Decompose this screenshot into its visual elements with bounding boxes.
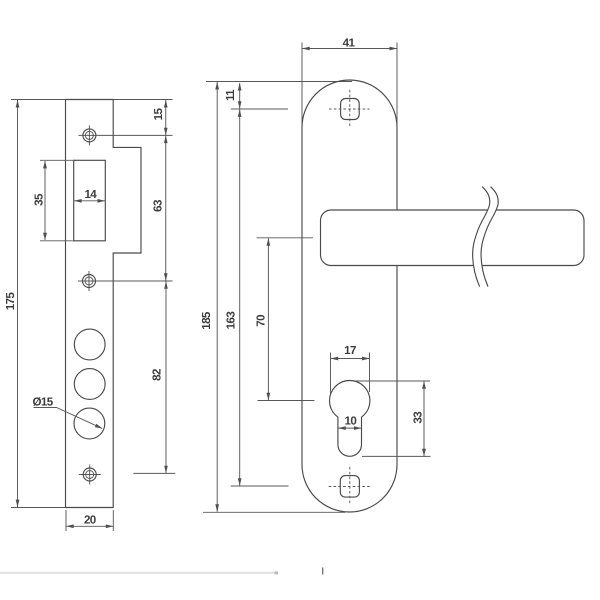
extension line: plate top edge extended <box>11 99 173 101</box>
dimension 163 line <box>239 109 241 485</box>
svg-text:17: 17 <box>344 344 356 357</box>
dimension 33 line <box>423 381 425 456</box>
dimension 14 line <box>74 200 105 202</box>
dimension 15 line <box>165 100 167 135</box>
break gap (white) <box>473 187 499 287</box>
svg-text:175: 175 <box>4 292 17 311</box>
svg-text:41: 41 <box>343 37 356 50</box>
escutcheon plate outline (stadium shape) <box>302 80 397 512</box>
svg-text:Ø15: Ø15 <box>32 396 53 409</box>
svg-text:15: 15 <box>152 108 165 121</box>
extension line: arch top tangent (for 185/11) <box>206 81 352 83</box>
extension line: handle centerline (70) <box>257 237 313 239</box>
hole circle middle (d15) <box>74 369 105 400</box>
svg-text:82: 82 <box>151 369 164 381</box>
hole circle bottom (d15) <box>74 408 105 439</box>
page artifact: light divider line bottom left <box>0 572 277 574</box>
dimension 35 extension lines <box>40 159 74 161</box>
dimension 20 extension lines <box>65 510 67 531</box>
screw hole bottom <box>79 474 101 476</box>
label D15 leader <box>34 408 103 429</box>
dimension 63 line <box>165 136 167 281</box>
dimension 35 line <box>44 161 46 240</box>
latch cutout rectangle <box>74 160 106 241</box>
svg-text:10: 10 <box>345 415 357 428</box>
bottom square hole centerlines <box>329 486 370 488</box>
dimension 70 line <box>267 238 269 400</box>
top square hole <box>341 99 360 120</box>
extension line: bottom square hole center (163) <box>231 485 289 487</box>
dimension 41 line <box>302 48 397 50</box>
dimension 82 bottom reference bar <box>133 472 175 474</box>
top square hole centerlines <box>329 108 370 110</box>
svg-text:20: 20 <box>84 513 96 526</box>
lever handle <box>321 210 585 266</box>
dimension 33 extension lines <box>356 380 430 382</box>
dimension 11 line <box>239 83 241 109</box>
euro cylinder hole: circle <box>330 381 370 421</box>
dimension 17 line <box>331 358 370 360</box>
svg-text:11: 11 <box>224 89 237 101</box>
extension line: plate bottom edge extended <box>11 507 114 509</box>
dimension 17 extension lines <box>330 353 332 395</box>
bottom square hole <box>340 476 359 498</box>
break line right <box>481 187 498 287</box>
page artifact: small tick <box>322 568 324 575</box>
extension line: top square hole center (11/163) <box>231 108 288 110</box>
dimension 82 line <box>165 281 167 473</box>
svg-text:63: 63 <box>152 199 165 212</box>
svg-text:185: 185 <box>200 311 213 330</box>
screw hole top, with leader to 15/63 dimension <box>78 134 172 136</box>
svg-text:33: 33 <box>412 411 425 424</box>
svg-text:14: 14 <box>84 188 97 201</box>
svg-text:70: 70 <box>255 315 268 327</box>
dimension 10 line <box>338 427 361 429</box>
dimension 20 line <box>66 525 113 527</box>
dimension 175 line <box>17 100 19 507</box>
extension lines: plate sides extended up (41) <box>301 43 303 129</box>
svg-text:35: 35 <box>33 193 46 206</box>
euro cylinder hole: slot <box>338 414 362 456</box>
screw hole middle, with leader to 63/82 dimension <box>78 280 173 282</box>
extension line: cylinder center (70) <box>258 400 315 402</box>
strike plate outline with latch lip <box>66 100 142 508</box>
svg-text:163: 163 <box>225 311 238 330</box>
extension line: plate bottom tangent (185) <box>203 511 345 513</box>
dimension 185 line <box>216 82 218 512</box>
break line left <box>473 187 490 287</box>
hole circle top (d15) <box>74 329 105 360</box>
